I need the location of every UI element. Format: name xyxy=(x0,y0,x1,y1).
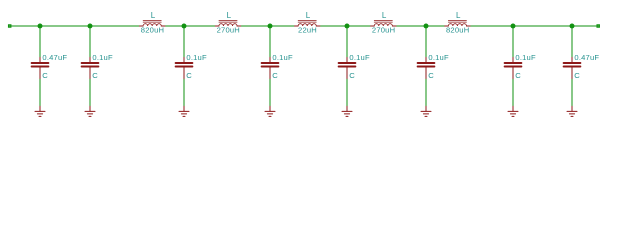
ground symbol GND6 xyxy=(421,106,431,116)
inductor L5 (820uH) xyxy=(445,20,470,26)
svg-text:22uH: 22uH xyxy=(298,26,317,35)
svg-text:C: C xyxy=(42,71,48,80)
svg-text:C: C xyxy=(515,71,521,80)
capacitor C2 (0.1uF) xyxy=(82,57,99,79)
svg-text:L: L xyxy=(151,11,156,20)
junction: node 5 on top bus xyxy=(345,24,350,29)
wire: vertical drop from C3 to ground xyxy=(183,79,185,106)
wire: vertical drop from C4 to ground xyxy=(269,79,271,106)
svg-text:C: C xyxy=(272,71,278,80)
wire: vertical drop from C2 to ground xyxy=(89,79,91,106)
capacitor C8 (0.47uF) xyxy=(564,57,581,79)
wire: vertical drop from bus to C5 xyxy=(346,26,348,58)
wire: vertical drop from bus to C7 xyxy=(512,26,514,58)
svg-text:L: L xyxy=(382,11,387,20)
ground symbol GND8 xyxy=(567,106,577,116)
svg-text:0.47uF: 0.47uF xyxy=(42,53,67,62)
svg-text:0.1uF: 0.1uF xyxy=(515,53,536,62)
svg-text:820uH: 820uH xyxy=(141,26,164,35)
svg-text:C: C xyxy=(574,71,580,80)
svg-text:L: L xyxy=(306,11,311,20)
svg-text:C: C xyxy=(349,71,355,80)
inductor L3 (22uH) xyxy=(295,20,320,26)
wire: vertical drop from bus to C3 xyxy=(183,26,185,58)
wire: vertical drop from C6 to ground xyxy=(425,79,427,106)
wire: top bus segment 1 xyxy=(11,25,139,27)
ground symbol GND7 xyxy=(508,106,518,116)
capacitor C1 (0.47uF) xyxy=(32,57,49,79)
wire: vertical drop from bus to C4 xyxy=(269,26,271,58)
capacitor C5 (0.1uF) xyxy=(339,57,356,79)
inductor L4 (270uH) xyxy=(371,20,396,26)
wire: vertical drop from C7 to ground xyxy=(512,79,514,106)
junction: node 1 on top bus xyxy=(38,24,43,29)
inductor L2 (270uH) xyxy=(215,20,240,26)
ground symbol GND3 xyxy=(179,106,189,116)
svg-text:C: C xyxy=(92,71,98,80)
svg-text:L: L xyxy=(227,11,232,20)
inductor L1 (820uH) xyxy=(140,20,165,26)
ground symbol GND5 xyxy=(342,106,352,116)
wire: vertical drop from bus to C1 xyxy=(39,26,41,58)
capacitor C7 (0.1uF) xyxy=(505,57,522,79)
svg-text:0.1uF: 0.1uF xyxy=(349,53,370,62)
svg-text:820uH: 820uH xyxy=(446,26,469,35)
wire: vertical drop from C5 to ground xyxy=(346,79,348,106)
junction: node 6 on top bus xyxy=(424,24,429,29)
capacitor C3 (0.1uF) xyxy=(176,57,193,79)
wire: top bus segment 4 xyxy=(320,25,371,27)
capacitor C4 (0.1uF) xyxy=(262,57,279,79)
wire: vertical drop from bus to C8 xyxy=(571,26,573,58)
svg-text:270uH: 270uH xyxy=(217,26,240,35)
ground symbol GND4 xyxy=(265,106,275,116)
svg-text:0.1uF: 0.1uF xyxy=(92,53,113,62)
node: open wire end (right output) xyxy=(596,24,600,28)
junction: node 8 on top bus xyxy=(570,24,575,29)
svg-text:C: C xyxy=(428,71,434,80)
junction: node 7 on top bus xyxy=(511,24,516,29)
svg-text:0.47uF: 0.47uF xyxy=(574,53,599,62)
wire: vertical drop from bus to C2 xyxy=(89,26,91,58)
svg-text:0.1uF: 0.1uF xyxy=(272,53,293,62)
svg-text:0.1uF: 0.1uF xyxy=(428,53,449,62)
junction: node 2 on top bus xyxy=(88,24,93,29)
wire: top bus segment 6 xyxy=(470,25,596,27)
ground symbol GND1 xyxy=(35,106,45,116)
wire: vertical drop from C1 to ground xyxy=(39,79,41,106)
wire: top bus segment 5 xyxy=(396,25,445,27)
node: open wire end (left input) xyxy=(8,24,12,28)
junction: node 4 on top bus xyxy=(268,24,273,29)
wire: top bus segment 2 xyxy=(165,25,215,27)
svg-text:L: L xyxy=(456,11,461,20)
svg-text:270uH: 270uH xyxy=(372,26,395,35)
svg-text:0.1uF: 0.1uF xyxy=(186,53,207,62)
wire: vertical drop from bus to C6 xyxy=(425,26,427,58)
capacitor C6 (0.1uF) xyxy=(418,57,435,79)
ground symbol GND2 xyxy=(85,106,95,116)
junction: node 3 on top bus xyxy=(182,24,187,29)
wire: vertical drop from C8 to ground xyxy=(571,79,573,106)
wire: top bus segment 3 xyxy=(241,25,295,27)
svg-text:C: C xyxy=(186,71,192,80)
